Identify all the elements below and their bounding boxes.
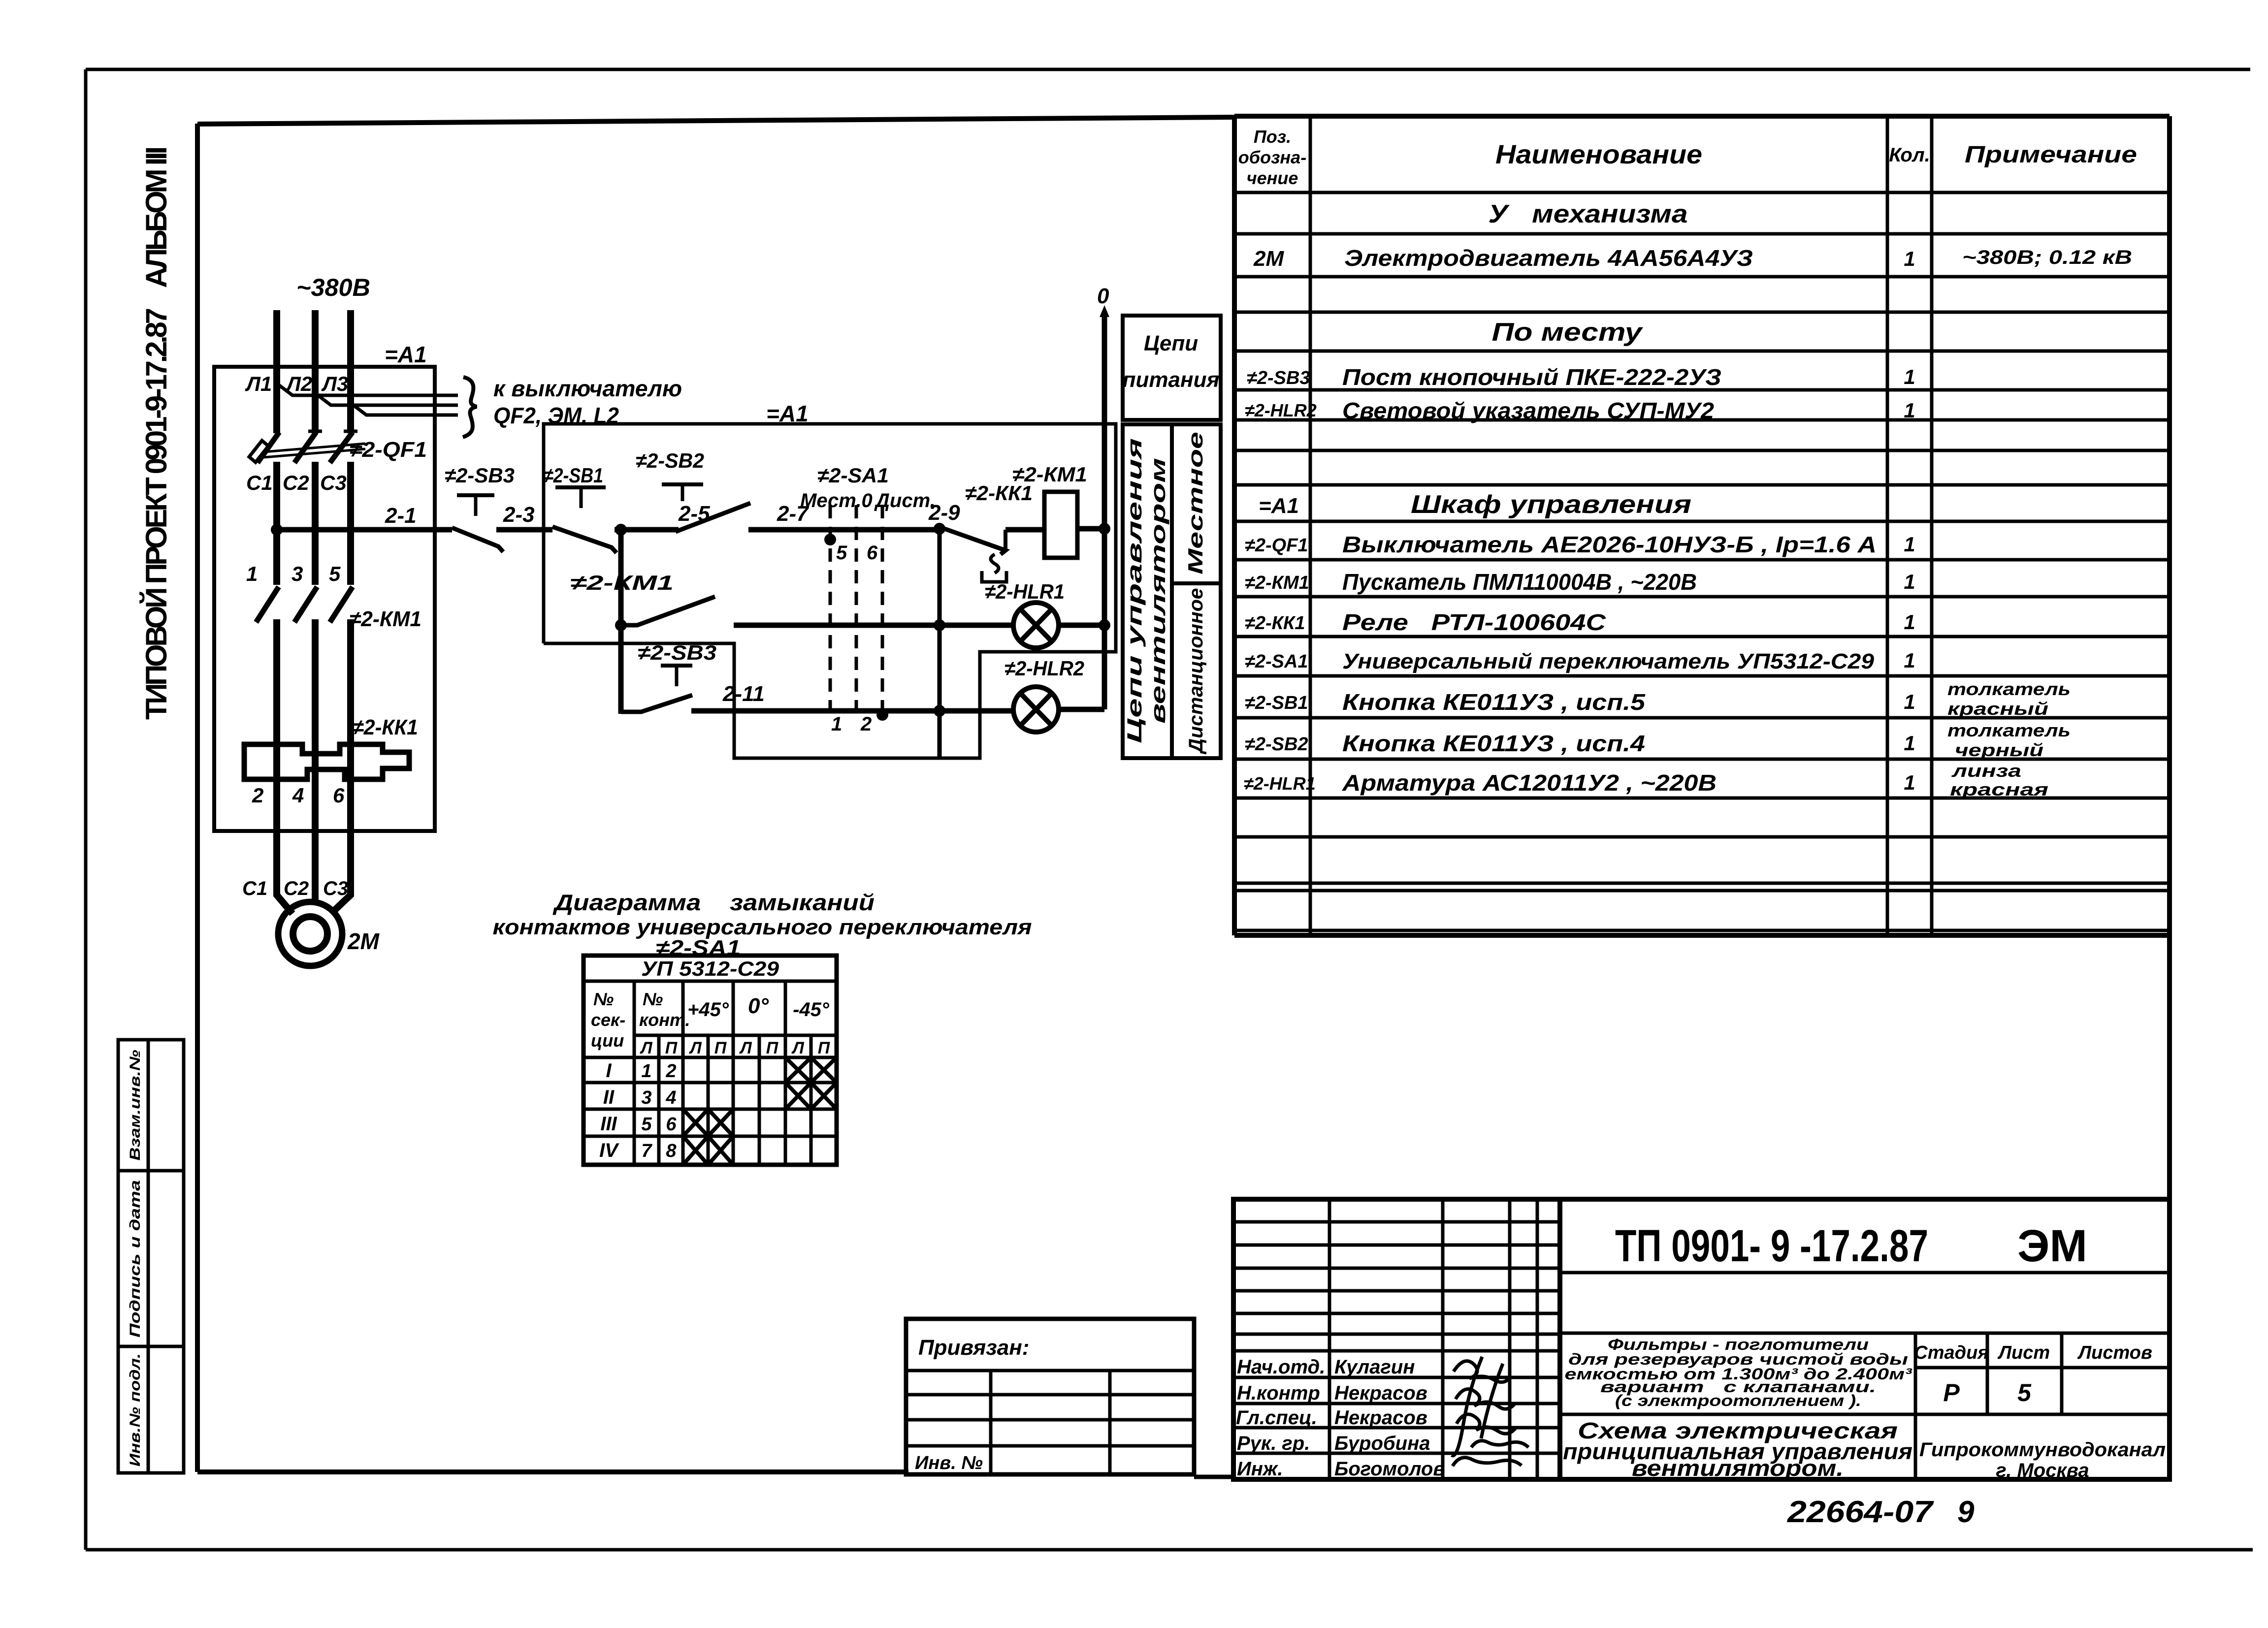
svg-text:Дист.: Дист. — [874, 490, 936, 511]
svg-text:Выключатель АЕ2026-10НУЗ-Б ,: Выключатель АЕ2026-10НУЗ-Б , Iр=1.6 А — [1342, 532, 1877, 557]
svg-text:1: 1 — [641, 1061, 651, 1082]
svg-text:Кнопка КЕ011УЗ , исп.5: Кнопка КЕ011УЗ , исп.5 — [1342, 689, 1646, 715]
wire 2-1 — [277, 527, 452, 533]
svg-text:Некрасов: Некрасов — [1334, 1382, 1427, 1404]
svg-text:5: 5 — [2017, 1379, 2032, 1406]
wire phase L3 — [331, 310, 351, 914]
svg-text:≠2-КК1: ≠2-КК1 — [353, 715, 418, 739]
svg-text:1: 1 — [1904, 365, 1915, 388]
wire branch vertical — [618, 530, 624, 714]
svg-text:5: 5 — [836, 542, 847, 564]
svg-text:Инв. №: Инв. № — [915, 1453, 983, 1473]
node 2-5 junction — [615, 524, 627, 536]
X marks row III at +45 — [683, 1109, 733, 1136]
tap wire to QF2 phase 3 — [352, 404, 458, 415]
svg-text:4: 4 — [665, 1087, 676, 1108]
svg-text:Кнопка КЕ011УЗ , исп.4: Кнопка КЕ011УЗ , исп.4 — [1342, 731, 1645, 756]
svg-text:(с электроотоплением ).: (с электроотоплением ). — [1615, 1392, 1861, 1409]
svg-text:вентилятором: вентилятором — [1146, 458, 1169, 724]
svg-text:С2: С2 — [283, 471, 309, 494]
thermal relay KK1 heaters — [244, 744, 409, 779]
svg-text:УП 5312-С29: УП 5312-С29 — [641, 957, 779, 980]
svg-text:5: 5 — [641, 1114, 652, 1135]
contactor KM1 main pole 1 — [256, 587, 279, 622]
node middle-riser — [934, 619, 945, 631]
svg-text:8: 8 — [666, 1141, 677, 1161]
wire phase L2 — [312, 310, 319, 902]
node on phase L1 feeding control — [271, 524, 283, 536]
relay contact KK1 (NC) — [944, 529, 1005, 554]
svg-text:Рук. гр.: Рук. гр. — [1237, 1433, 1310, 1454]
breaker QF1 pole 2 — [294, 432, 316, 463]
svg-text:6: 6 — [867, 542, 878, 564]
svg-text:≠2-HLR2: ≠2-HLR2 — [1004, 657, 1084, 680]
svg-text:≠2-SВ1: ≠2-SВ1 — [544, 464, 603, 487]
svg-text:≠2-SВ2: ≠2-SВ2 — [1245, 734, 1308, 755]
wire 2-5 — [615, 527, 679, 533]
pushbutton SB3 stop (NC) — [452, 495, 503, 552]
svg-text:красный: красный — [1947, 699, 2048, 719]
svg-text:2М: 2М — [1253, 247, 1284, 271]
svg-text:Л: Л — [791, 1039, 804, 1057]
svg-text:≠2-SА1: ≠2-SА1 — [817, 464, 889, 487]
svg-text:6: 6 — [666, 1114, 677, 1135]
svg-text:По месту: По месту — [1492, 318, 1644, 347]
svg-text:С3: С3 — [323, 878, 348, 899]
thermal release symbol KK1 — [982, 554, 1006, 582]
svg-text:1: 1 — [1904, 690, 1915, 713]
contactor aux contact KM1 (NO) — [621, 597, 715, 625]
svg-text:г. Москва: г. Москва — [1996, 1460, 2089, 1481]
svg-text:2М: 2М — [347, 928, 380, 954]
svg-text:С2: С2 — [284, 878, 309, 899]
svg-text:22664-07: 22664-07 — [1787, 1495, 1934, 1529]
svg-text:0°: 0° — [748, 994, 769, 1018]
svg-text:2: 2 — [665, 1061, 676, 1082]
svg-text:Л: Л — [739, 1039, 752, 1057]
wire 2-3 — [496, 527, 552, 533]
svg-text:6: 6 — [333, 784, 345, 807]
svg-text:Наименование: Наименование — [1495, 140, 1702, 169]
parts list table grid — [1234, 116, 2170, 935]
svg-text:Пускатель ПМЛ110004В , ~220: Пускатель ПМЛ110004В , ~220В — [1342, 569, 1697, 595]
svg-text:Стадия: Стадия — [1914, 1342, 1988, 1363]
breaker QF1 pole 1 — [258, 432, 279, 463]
svg-text:ТП 0901- 9 -17.2.87: ТП 0901- 9 -17.2.87 — [1615, 1221, 1928, 1271]
svg-text:обозна-: обозна- — [1238, 147, 1306, 167]
svg-text:Нач.отд.: Нач.отд. — [1237, 1356, 1325, 1378]
motor 2M — [278, 902, 342, 966]
svg-text:2: 2 — [252, 784, 263, 807]
svg-text:~380В; 0.12 кВ: ~380В; 0.12 кВ — [1962, 247, 2132, 268]
breaker QF1 trip bar — [264, 444, 365, 457]
svg-text:1: 1 — [1904, 771, 1915, 794]
contactor KM1 main pole 2 — [294, 587, 317, 622]
svg-text:Богомолов: Богомолов — [1334, 1458, 1445, 1480]
svg-text:У механизма: У механизма — [1489, 200, 1688, 228]
svg-text:Световой указатель СУП-МУ2: Световой указатель СУП-МУ2 — [1342, 398, 1714, 423]
lamp HLR1 — [1013, 603, 1059, 648]
svg-text:к выключателю: к выключателю — [493, 376, 682, 401]
svg-text:≠2-КК1: ≠2-КК1 — [1245, 613, 1305, 634]
arrow head of 0 wire — [1100, 305, 1109, 317]
svg-text:3: 3 — [292, 562, 303, 585]
net group box: fan control circuits — [1123, 424, 1221, 758]
breaker QF1 pole 2 contact tick — [308, 430, 322, 433]
svg-text:≠2-SА1: ≠2-SА1 — [1245, 651, 1308, 672]
svg-text:≠2-HLR1: ≠2-HLR1 — [985, 580, 1065, 603]
svg-text:С1: С1 — [246, 471, 273, 494]
brace — [463, 377, 477, 437]
svg-text:Л3: Л3 — [321, 372, 348, 395]
neutral wire 0 — [1102, 315, 1107, 709]
contactor coil KM1 — [1044, 492, 1077, 558]
breaker QF1 latch — [249, 441, 268, 462]
svg-text:С1: С1 — [242, 878, 267, 899]
node 2-9 junction — [934, 523, 945, 535]
svg-text:Гл.спец.: Гл.спец. — [1236, 1407, 1317, 1429]
svg-text:1: 1 — [1904, 247, 1915, 270]
svg-text:Цепи управления: Цепи управления — [1123, 438, 1146, 743]
pushbutton SB3 second contact (NO) — [621, 666, 692, 712]
svg-text:П: П — [766, 1039, 779, 1057]
cabinet box =A1 control outline — [544, 424, 1116, 758]
stamp box Инв.№ подл. — [118, 1346, 184, 1473]
svg-text:Реле РТЛ-100604С: Реле РТЛ-100604С — [1342, 609, 1606, 635]
stamp box Подпись и дата — [118, 1171, 184, 1346]
svg-text:Кулагин: Кулагин — [1334, 1356, 1415, 1378]
svg-text:толкатель: толкатель — [1947, 720, 2071, 740]
node coil-neutral — [1099, 523, 1110, 535]
svg-text:=А1: =А1 — [385, 342, 427, 367]
svg-text:Привязан:: Привязан: — [918, 1336, 1029, 1360]
svg-text:Листов: Листов — [2077, 1342, 2152, 1363]
svg-text:IV: IV — [599, 1140, 619, 1161]
svg-text:0: 0 — [1097, 284, 1109, 308]
svg-text:Пост кнопочный ПКЕ-222-2УЗ: Пост кнопочный ПКЕ-222-2УЗ — [1342, 364, 1721, 390]
vertical project title text — [140, 146, 173, 720]
node KM1 aux branch — [615, 619, 627, 631]
wire HLR2 to neutral — [1059, 707, 1104, 712]
svg-text:Взам.инв.№: Взам.инв.№ — [127, 1050, 143, 1161]
svg-text:≠2-SВ1: ≠2-SВ1 — [1245, 693, 1308, 713]
svg-text:С3: С3 — [320, 471, 347, 494]
svg-text:питания: питания — [1123, 368, 1220, 392]
svg-text:конт.: конт. — [639, 1010, 690, 1030]
svg-text:Электродвигатель 4АА56А4УЗ: Электродвигатель 4АА56А4УЗ — [1344, 245, 1753, 271]
drawing thick frame — [197, 116, 2170, 1479]
svg-text:Цепи: Цепи — [1144, 331, 1198, 355]
signatures scribble — [1452, 1357, 1528, 1466]
svg-text:ТИПОВОЙ ПРОЕКТ 0901-9-17.2.87: ТИПОВОЙ ПРОЕКТ 0901-9-17.2.87 АЛЬБОМ III — [140, 146, 173, 720]
node SA1 contact 2 — [876, 709, 888, 721]
selector SA1 dashed contact 5-6 lines — [830, 505, 882, 720]
wire 2-11 — [691, 708, 1013, 714]
svg-text:Инв.№ подл.: Инв.№ подл. — [127, 1353, 143, 1467]
svg-text:1: 1 — [1904, 399, 1915, 422]
svg-text:Н.контр: Н.контр — [1237, 1382, 1320, 1404]
svg-text:Универсальный переключатель У: Универсальный переключатель УП5312-С29 — [1342, 649, 1875, 673]
svg-text:≠2-SВ3: ≠2-SВ3 — [1247, 368, 1310, 388]
svg-text:черный: черный — [1955, 740, 2043, 760]
svg-text:≠2-QF1: ≠2-QF1 — [350, 438, 427, 462]
svg-text:I: I — [606, 1060, 612, 1082]
svg-text:Дистанционное: Дистанционное — [1185, 588, 1207, 755]
wire middle branch — [734, 623, 1013, 628]
tap wire to QF2 phase 1 — [278, 384, 458, 395]
svg-text:Р: Р — [1943, 1379, 1960, 1406]
breaker QF1 pole 3 contact tick — [344, 430, 357, 433]
X marks row I at -45 — [785, 1057, 837, 1083]
svg-text:Л: Л — [639, 1039, 652, 1057]
svg-text:линза: линза — [1951, 761, 2021, 781]
svg-text:1: 1 — [1904, 732, 1915, 755]
svg-text:+45°: +45° — [687, 999, 729, 1021]
svg-text:≠2-HLR1: ≠2-HLR1 — [1244, 773, 1316, 794]
svg-text:№: № — [643, 989, 663, 1009]
svg-text:5: 5 — [329, 562, 341, 585]
svg-text:Арматура АС12011У2 , ~220В: Арматура АС12011У2 , ~220В — [1342, 770, 1717, 796]
svg-text:1: 1 — [831, 713, 842, 735]
svg-text:Шкаф управления: Шкаф управления — [1411, 490, 1691, 519]
lamp HLR2 — [1013, 687, 1059, 732]
svg-text:≠2-КМ1: ≠2-КМ1 — [350, 607, 421, 631]
svg-text:П: П — [665, 1039, 678, 1057]
svg-text:Инж.: Инж. — [1237, 1458, 1283, 1480]
cabinet box =A1 power section — [214, 367, 435, 831]
svg-text:1: 1 — [1904, 533, 1915, 556]
svg-text:1: 1 — [1904, 610, 1915, 634]
title block — [1233, 1199, 2170, 1479]
svg-text:II: II — [603, 1086, 615, 1108]
breaker QF1 pole 3 — [330, 432, 353, 463]
svg-text:ции: ции — [591, 1030, 624, 1051]
svg-text:Л: Л — [688, 1039, 702, 1057]
svg-text:ЭМ: ЭМ — [2017, 1221, 2087, 1271]
node lower-riser — [934, 705, 945, 717]
wire to coil — [1005, 527, 1044, 533]
privyazan table — [906, 1319, 1194, 1474]
svg-text:красная: красная — [1950, 779, 2048, 799]
svg-text:2-11: 2-11 — [722, 682, 765, 706]
X marks row IV at +45 — [683, 1136, 733, 1165]
svg-text:1: 1 — [246, 562, 258, 585]
svg-text:7: 7 — [641, 1141, 652, 1161]
svg-text:П: П — [714, 1039, 727, 1057]
svg-text:Примечание: Примечание — [1965, 142, 2137, 168]
svg-text:≠2-SВ2: ≠2-SВ2 — [636, 449, 704, 472]
tap wire to QF2 phase 2 — [317, 394, 458, 405]
svg-text:≠2-КМ1: ≠2-КМ1 — [1012, 463, 1087, 486]
svg-text:чение: чение — [1247, 168, 1298, 188]
svg-text:1: 1 — [1904, 649, 1915, 672]
svg-text:2-1: 2-1 — [385, 504, 417, 528]
wire coil to neutral — [1077, 526, 1104, 532]
X marks row II at -45 — [785, 1083, 837, 1109]
pushbutton SB2 start (NO) — [662, 484, 750, 532]
svg-text:3: 3 — [641, 1087, 651, 1108]
svg-text:2-9: 2-9 — [928, 501, 960, 525]
svg-text:Л1: Л1 — [245, 372, 272, 395]
node SA1 contact 5 — [824, 534, 836, 545]
svg-text:2: 2 — [860, 713, 872, 735]
svg-text:≠2-SВ3: ≠2-SВ3 — [445, 464, 515, 487]
svg-text:Поз.: Поз. — [1254, 127, 1291, 147]
svg-text:толкатель: толкатель — [1947, 679, 2071, 699]
svg-text:1: 1 — [1904, 570, 1915, 593]
closure diagram table — [583, 956, 837, 1165]
svg-text:≠2-КМ1: ≠2-КМ1 — [570, 571, 674, 594]
svg-text:Буробина: Буробина — [1334, 1433, 1430, 1454]
wire junction riser — [938, 529, 942, 757]
svg-text:2-3: 2-3 — [503, 503, 535, 527]
svg-text:Некрасов: Некрасов — [1334, 1407, 1427, 1429]
svg-text:Мест.0: Мест.0 — [800, 490, 873, 511]
svg-text:№: № — [593, 989, 614, 1009]
svg-text:=А1: =А1 — [766, 401, 809, 426]
svg-text:Диаграмма замыканий: Диаграмма замыканий — [552, 890, 875, 915]
svg-text:≠2-КМ1: ≠2-КМ1 — [1245, 573, 1309, 593]
net group box: supply circuits — [1123, 316, 1221, 420]
svg-text:Лист: Лист — [1997, 1342, 2050, 1363]
wire phase L1 — [277, 310, 292, 914]
svg-text:≠2-HLR2: ≠2-HLR2 — [1245, 400, 1317, 420]
svg-text:Кол.: Кол. — [1889, 144, 1930, 166]
svg-text:9: 9 — [1957, 1495, 1975, 1529]
svg-text:сек-: сек- — [591, 1010, 625, 1030]
svg-text:III: III — [600, 1113, 617, 1135]
node HLR1-neutral — [1099, 619, 1110, 631]
wire 2-7 — [748, 527, 940, 533]
svg-text:контактов универсального пер: контактов универсального переключателя — [493, 915, 1032, 939]
svg-text:=А1: =А1 — [1259, 494, 1299, 518]
svg-text:Подпись и дата: Подпись и дата — [127, 1180, 143, 1338]
svg-text:4: 4 — [292, 784, 304, 807]
pushbutton SB1 stop (NC) — [552, 487, 616, 553]
svg-text:вентилятором.: вентилятором. — [1632, 1455, 1844, 1481]
svg-text:≠2-QF1: ≠2-QF1 — [1245, 535, 1308, 556]
stamp box Взам.инв.№ — [118, 1040, 184, 1171]
svg-text:~380В: ~380В — [296, 274, 370, 301]
svg-text:Гипрокоммунводоканал: Гипрокоммунводоканал — [1919, 1439, 2166, 1461]
wire HLR1 to neutral — [1059, 623, 1104, 628]
svg-text:П: П — [818, 1039, 831, 1057]
svg-text:Местное: Местное — [1184, 432, 1207, 575]
contactor KM1 main pole 3 — [330, 587, 353, 622]
svg-text:-45°: -45° — [793, 999, 830, 1021]
